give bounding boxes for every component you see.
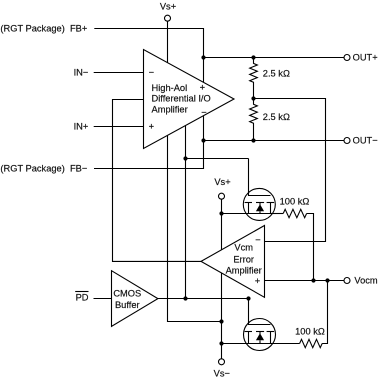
terminal OUT-	[344, 136, 378, 146]
buffer CMOS triangle	[112, 271, 158, 327]
op-amp U1 High-Aol Differential I/O Amplifier	[144, 50, 235, 149]
wire: OUT- line	[204, 140, 345, 142]
wire: Vs+ terminal down to main amplifier supply pin	[167, 21, 169, 62]
svg-text:(RGT Package) FB+: (RGT Package) FB+	[0, 24, 87, 34]
wire: Vs+ node to top MOSFET source	[222, 213, 249, 215]
svg-text:Error: Error	[233, 255, 254, 265]
junction: Vs- vertical / main amp Vs-	[219, 319, 223, 323]
wire: IN+ input	[94, 126, 144, 128]
transistor bottom MOSFET Q2	[244, 319, 276, 351]
svg-text:IN+: IN+	[74, 122, 89, 132]
svg-text:OUT−: OUT−	[353, 136, 378, 146]
wire: bottom MOSFET gate lead	[249, 299, 271, 325]
svg-text:Vocm: Vocm	[354, 276, 378, 286]
wire: Vocm output line	[265, 280, 345, 282]
junction: CMOS output / PD vertical	[183, 296, 187, 300]
Vs+ supply terminal (top)	[160, 2, 176, 22]
wire: Vs+ down to Vcm amp supply	[221, 199, 223, 250]
junction: Vocm / 100k upper	[311, 278, 315, 282]
wire: 100k lower up to Vocm node	[322, 281, 327, 344]
svg-text:(RGT Package) FB−: (RGT Package) FB−	[0, 164, 87, 174]
wire: FB- over and up to OUT- net	[94, 116, 204, 168]
op-amp Vcm Error Amplifier	[201, 226, 265, 298]
junction: CMOS output / bottom gate	[246, 296, 250, 300]
svg-text:Differential I/O: Differential I/O	[152, 94, 211, 104]
svg-text:+: +	[255, 276, 260, 286]
wire: bottom MOSFET drain to 100k resistor	[271, 343, 300, 345]
wire: main amp Vs- supply down and over to Vs- net	[168, 136, 222, 322]
wire: power-down net from main amp down to CMOS buffer output	[185, 126, 187, 299]
junction: OUT-/divider bottom	[251, 138, 255, 142]
svg-text:Amplifier: Amplifier	[152, 105, 188, 115]
svg-text:2.5 kΩ: 2.5 kΩ	[263, 69, 290, 79]
svg-text:OUT+: OUT+	[353, 53, 378, 63]
wire: Vs- node to bottom MOSFET source	[222, 343, 249, 345]
wire: IN- input	[94, 72, 144, 74]
svg-text:Vs+: Vs+	[160, 2, 176, 12]
terminal Vocm	[344, 276, 378, 286]
wire: Vcm error amp output to main amp common-mode input	[113, 100, 202, 262]
wire: PD input to CMOS buffer	[94, 298, 112, 300]
wire: power-down branch to top MOSFET gate	[186, 158, 249, 160]
svg-text:100 kΩ: 100 kΩ	[295, 327, 325, 337]
junction: divider midpoint	[251, 96, 255, 100]
svg-text:Vs−: Vs−	[214, 369, 230, 379]
junction: Vs- vertical / MOSFET source	[219, 341, 223, 345]
svg-text:2.5 kΩ: 2.5 kΩ	[263, 112, 290, 122]
junction: FB-/OUT-	[201, 138, 205, 142]
svg-text:Vcm: Vcm	[234, 243, 253, 253]
junction: OUT+/divider top	[251, 55, 255, 59]
resistor 2.5k upper (OUT+ to midpoint)	[250, 58, 290, 99]
svg-text:CMOS: CMOS	[113, 289, 141, 299]
svg-text:−: −	[201, 107, 206, 117]
resistor 100k upper	[280, 197, 310, 218]
junction: FB+/OUT+	[201, 55, 205, 59]
wire: FB+ over to OUT+ net (down into amp top edge)	[94, 29, 203, 83]
svg-text:IN−: IN−	[74, 68, 89, 78]
wire: OUT+ line	[204, 57, 345, 59]
Vs- supply terminal (bottom)	[214, 359, 230, 379]
wire: 100k upper down to Vocm node	[307, 214, 314, 281]
junction: Vs+ node at MOSFET source	[219, 211, 223, 215]
wire: divider midpoint down to Vcm amp inverting input	[254, 99, 326, 242]
junction: PD net gate branch	[183, 156, 187, 160]
terminal OUT+	[344, 53, 378, 63]
wire: CMOS buffer output line	[158, 298, 249, 300]
svg-text:+: +	[149, 122, 154, 132]
node PD input label (with overline)	[75, 292, 89, 303]
svg-text:−: −	[255, 235, 260, 245]
resistor 100k lower	[295, 327, 325, 348]
svg-text:100 kΩ: 100 kΩ	[280, 197, 310, 207]
svg-text:High-Aol: High-Aol	[152, 83, 188, 93]
junction: Vocm / 100k lower	[325, 278, 329, 282]
svg-text:PD: PD	[76, 293, 89, 303]
Vs+ supply terminal (middle)	[214, 177, 230, 199]
svg-text:Vs+: Vs+	[214, 177, 230, 187]
resistor 2.5k lower (midpoint to OUT-)	[250, 99, 290, 141]
svg-text:Amplifier: Amplifier	[226, 266, 262, 276]
wire: Vcm amp Vs- lead down to Vs- terminal	[221, 273, 223, 359]
transistor top MOSFET Q1	[243, 159, 275, 221]
wire: top MOSFET drain to 100k resistor	[271, 213, 284, 215]
svg-text:Buffer: Buffer	[115, 300, 140, 310]
svg-text:+: +	[200, 83, 205, 93]
svg-text:−: −	[149, 68, 154, 78]
